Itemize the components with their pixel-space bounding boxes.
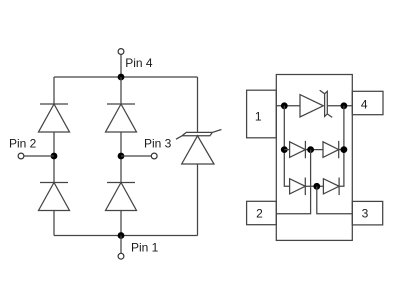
diode D3 cathode bar	[107, 103, 135, 105]
diode D5 triangle	[290, 142, 306, 158]
diode D6 triangle	[323, 142, 339, 158]
diode D2 triangle	[39, 183, 70, 211]
diode D1 triangle	[39, 104, 70, 132]
node row1 left	[281, 102, 288, 109]
pin 3 terminal circle	[151, 153, 157, 159]
diode D7 triangle	[290, 179, 306, 194]
zener Z1 triangle	[182, 136, 214, 164]
node row2 mid	[307, 146, 314, 153]
wire junction to pin1 circle	[120, 236, 122, 254]
wire pin2 to junction	[24, 155, 54, 157]
svg-text:Pin 4: Pin 4	[125, 56, 153, 70]
wire junction to pin3	[121, 155, 151, 157]
node pin4 junction	[118, 74, 125, 81]
wire bottom rail	[54, 235, 198, 237]
pin 1 box	[247, 90, 277, 138]
node row1 right	[341, 102, 348, 109]
svg-text:1: 1	[255, 110, 262, 124]
wire middle branch lower	[120, 211, 122, 236]
package body	[276, 75, 352, 241]
pin 4 box	[352, 91, 383, 114]
diode D4 cathode bar	[107, 182, 135, 184]
wire zener branch lower	[197, 164, 199, 236]
svg-text:Pin 1: Pin 1	[131, 240, 159, 254]
wire row2 right stub	[339, 149, 344, 151]
zener Z1pkg triangle	[300, 95, 323, 117]
node pin1 junction	[118, 232, 125, 239]
node row2 right	[341, 146, 348, 153]
wire middle branch middle	[120, 132, 122, 183]
zener Z1pkg cathode plate	[320, 90, 333, 117]
diode D5 cathode bar	[304, 141, 306, 158]
diode D4 triangle	[106, 183, 137, 211]
pin 1 terminal circle	[118, 253, 124, 259]
wire left branch lower	[53, 211, 55, 236]
wire pin4 circle to top rail	[120, 55, 122, 77]
wire pin2 drop	[276, 150, 310, 214]
svg-text:Pin 2: Pin 2	[9, 137, 37, 151]
wire row2 mid	[305, 149, 323, 151]
zener Z1 cathode plate	[176, 130, 221, 140]
wire right rail vertical	[339, 106, 344, 187]
wire top rail	[54, 76, 198, 78]
diode D8 cathode bar	[338, 178, 340, 196]
diode D2 cathode bar	[40, 182, 68, 184]
wire pin3 drop	[317, 186, 353, 214]
svg-text:2: 2	[256, 207, 263, 221]
diode D1 cathode bar	[40, 103, 68, 105]
wire row1 left	[276, 105, 300, 107]
svg-text:4: 4	[361, 98, 368, 112]
pin 2 box	[247, 201, 277, 224]
diode D6 cathode bar	[338, 141, 340, 158]
node row2 left	[281, 146, 288, 153]
pin 3 box	[352, 201, 382, 225]
wire row3 mid	[305, 185, 323, 187]
node pin2 junction	[51, 153, 58, 160]
pin 4 terminal circle	[118, 49, 124, 55]
diode D3 triangle	[106, 104, 137, 132]
wire row1 right	[327, 105, 352, 107]
wire zener branch upper	[197, 77, 199, 132]
node pin3 junction	[118, 153, 125, 160]
wire middle branch upper	[120, 77, 122, 104]
pin 2 terminal circle	[18, 153, 24, 159]
wire left branch middle	[53, 132, 55, 183]
node row3 mid	[313, 183, 320, 190]
diode D8 triangle	[323, 179, 339, 194]
svg-text:3: 3	[362, 207, 369, 221]
wire left branch upper	[53, 77, 55, 104]
diode D7 cathode bar	[304, 178, 306, 196]
wire row2 left stub	[284, 149, 289, 151]
wire left rail vertical	[284, 106, 289, 187]
svg-text:Pin 3: Pin 3	[144, 137, 172, 151]
